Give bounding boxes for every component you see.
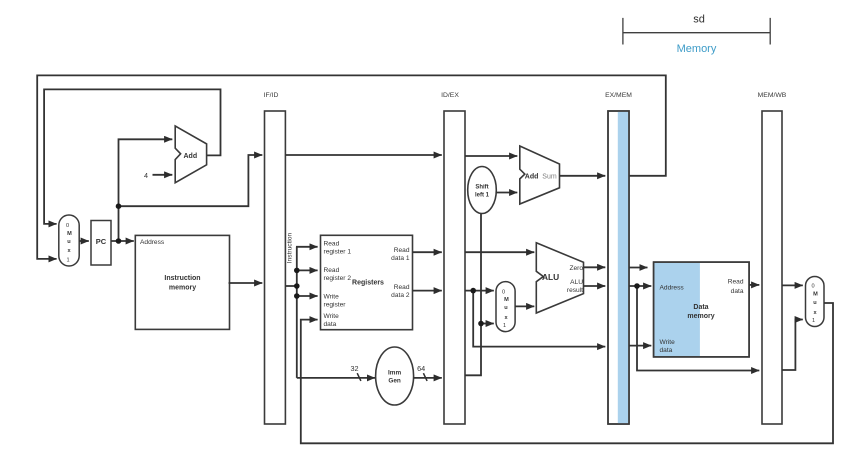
svg-text:32: 32 (350, 364, 358, 373)
svg-text:M: M (67, 231, 72, 237)
svg-text:u: u (67, 239, 71, 245)
svg-text:data: data (324, 321, 337, 328)
mux MemtoReg (806, 277, 825, 327)
wire: PC to instruction memory address (111, 240, 134, 242)
immediate generator Imm Gen (376, 347, 414, 405)
svg-text:MEM/WB: MEM/WB (758, 92, 787, 99)
data memory (654, 262, 750, 357)
wire: ALU zero to EX/MEM (584, 266, 606, 268)
pipeline register IF/ID (264, 92, 286, 424)
svg-text:ID/EX: ID/EX (441, 92, 459, 99)
svg-text:Write: Write (324, 294, 340, 301)
svg-text:u: u (504, 305, 508, 311)
svg-text:data: data (731, 288, 744, 295)
wire: instruction vertical distribution (296, 247, 298, 378)
svg-text:Gen: Gen (388, 378, 401, 385)
label 64 and slash (417, 364, 427, 381)
wire: branch target from EX/MEM back to PC mux input 1 (37, 75, 666, 259)
svg-text:Address: Address (660, 285, 685, 292)
pipeline register ID/EX (441, 92, 465, 424)
wire: read data 2 to ID/EX (413, 290, 442, 292)
svg-text:left 1: left 1 (475, 193, 490, 199)
svg-text:Write: Write (324, 313, 340, 320)
node: instruction junction read reg 2 (294, 268, 300, 274)
shift left 1 unit (468, 167, 497, 214)
svg-text:Registers: Registers (352, 280, 384, 287)
node: read data 2 junction (470, 288, 476, 294)
node: PC line branch junction (116, 203, 122, 209)
svg-text:Shift: Shift (475, 185, 488, 191)
svg-text:Read: Read (324, 267, 340, 274)
wire: ID/EX PC to branch Add (465, 155, 517, 157)
wire: read data 2 branch down to EX/MEM write data (473, 291, 605, 347)
wire: MEM/WB ALU result to WB mux 1 (782, 320, 803, 371)
wire: IF/ID PC to ID/EX (285, 154, 441, 156)
wire: immediate branch to ALUSrc mux 1 (481, 323, 494, 325)
wire: EX/MEM ALU result to data memory address (629, 285, 651, 287)
adder Add (PC+4) (175, 126, 206, 183)
wire: ID/EX read data 1 to ALU (465, 251, 534, 253)
svg-text:Read: Read (394, 284, 410, 291)
svg-text:sd: sd (693, 14, 705, 26)
node: instruction junction write reg (294, 293, 300, 299)
svg-text:IF/ID: IF/ID (264, 92, 279, 99)
svg-text:0: 0 (811, 283, 814, 289)
svg-text:Write: Write (660, 339, 676, 346)
svg-text:M: M (813, 292, 818, 298)
svg-text:register 1: register 1 (324, 249, 352, 256)
mux for PC source (59, 215, 79, 266)
register PC (91, 221, 111, 266)
svg-text:ALU: ALU (570, 279, 583, 286)
wire: ALU result bypass to MEM/WB (637, 286, 759, 371)
pipeline register MEM/WB (758, 92, 787, 424)
svg-text:Instruction: Instruction (164, 275, 200, 282)
node: PC output junction (116, 238, 122, 244)
wire: to read register 1 (296, 246, 318, 248)
svg-text:data 1: data 1 (391, 255, 410, 262)
svg-text:register: register (324, 302, 347, 309)
label 32 and slash (350, 364, 360, 381)
svg-text:Zero: Zero (569, 265, 583, 272)
bracket over Memory stage (623, 18, 770, 45)
svg-text:Address: Address (140, 239, 165, 246)
wire: instruction memory to IF/ID (229, 282, 263, 284)
wire: ID/EX immediate up to shift left 1 (465, 214, 481, 376)
svg-text:Read: Read (324, 241, 340, 248)
instruction memory (135, 235, 229, 329)
svg-text:memory: memory (687, 313, 714, 320)
node: instruction junction main (294, 283, 300, 289)
wire: read data 1 to ID/EX (413, 251, 442, 253)
svg-text:Sum: Sum (542, 174, 557, 181)
svg-text:Read: Read (394, 247, 410, 254)
wire: write back to registers write data (301, 303, 833, 443)
svg-text:0: 0 (66, 223, 69, 229)
wire: instruction bus from IF/ID (285, 285, 296, 287)
wire: mux to PC (79, 240, 89, 242)
wire: MEM/WB read data to WB mux 0 (782, 284, 803, 286)
svg-text:64: 64 (417, 364, 425, 373)
svg-text:M: M (504, 297, 509, 303)
svg-text:Imm: Imm (388, 370, 401, 377)
svg-text:0: 0 (502, 289, 505, 295)
svg-text:register 2: register 2 (324, 275, 352, 282)
node: ALU result junction (634, 283, 640, 289)
wire: PC up to Add input (119, 139, 173, 241)
svg-text:1: 1 (503, 323, 506, 329)
wire: to read register 2 (297, 269, 318, 271)
mux ALUSrc (496, 282, 515, 332)
svg-text:Add: Add (525, 173, 539, 180)
svg-text:Add: Add (184, 153, 198, 160)
wire: shift left 1 to branch Add (496, 192, 517, 194)
registers file (321, 235, 413, 329)
pipeline register EX/MEM (highlighted) (605, 92, 632, 424)
wire: to write register (297, 295, 318, 297)
wire: EX/MEM write data to data memory (629, 345, 651, 347)
wire: Add Sum to EX/MEM (560, 175, 606, 177)
svg-text:Data: Data (693, 304, 708, 311)
svg-text:u: u (813, 300, 817, 306)
svg-text:1: 1 (66, 258, 69, 264)
wire: ALUSrc mux to ALU (515, 305, 534, 307)
svg-text:EX/MEM: EX/MEM (605, 92, 632, 99)
wire: ID/EX read data 2 to ALUSrc mux 0 (465, 290, 494, 292)
svg-text:1: 1 (812, 318, 815, 324)
svg-text:4: 4 (144, 171, 148, 180)
svg-text:data: data (660, 347, 673, 354)
svg-text:Memory: Memory (677, 43, 717, 55)
ALU (536, 243, 583, 313)
wire: PC+4 from Add back to PC mux input 0 (44, 89, 220, 224)
svg-text:ALU: ALU (542, 272, 559, 282)
svg-text:Read: Read (728, 278, 744, 285)
svg-text:result: result (567, 287, 583, 294)
svg-text:memory: memory (169, 285, 196, 292)
svg-text:data 2: data 2 (391, 292, 410, 299)
svg-text:PC: PC (96, 237, 107, 246)
svg-text:Instruction: Instruction (287, 232, 294, 263)
wire: PC value to IF/ID (119, 155, 263, 206)
wire: 4 to Add (153, 174, 173, 176)
wire: imm gen to ID/EX (414, 377, 442, 379)
wire: ALU result to EX/MEM (584, 285, 606, 287)
adder Add (branch target) (520, 146, 560, 204)
wire: EX/MEM zero stub (629, 267, 648, 269)
wire: data memory read data to MEM/WB (749, 284, 759, 286)
node: immediate junction (478, 321, 484, 327)
wire: to immediate generator (297, 377, 375, 379)
